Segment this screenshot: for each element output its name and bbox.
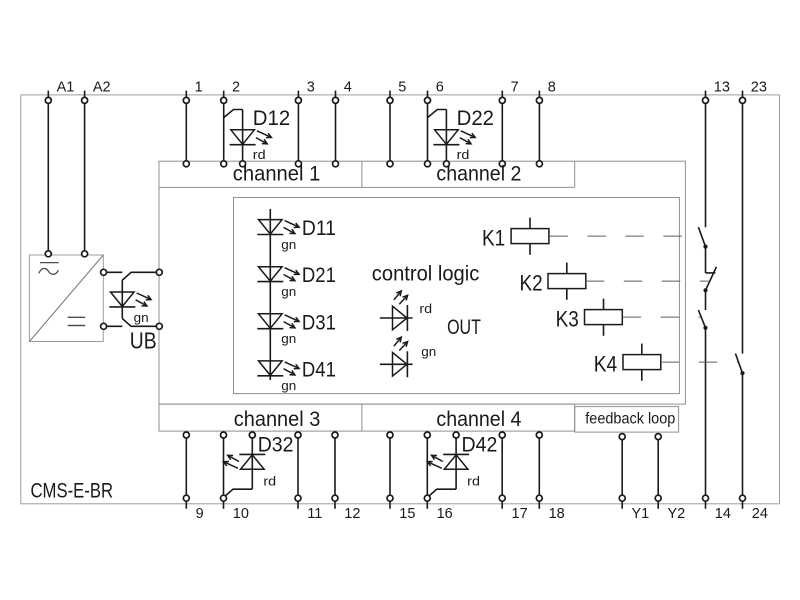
svg-text:11: 11	[307, 506, 322, 522]
svg-text:feedback loop: feedback loop	[585, 411, 675, 428]
svg-text:D11: D11	[302, 217, 336, 240]
svg-text:control logic: control logic	[372, 262, 480, 285]
svg-text:7: 7	[511, 80, 519, 96]
svg-text:2: 2	[232, 80, 240, 96]
svg-text:channel 3: channel 3	[234, 408, 320, 431]
svg-text:rd: rd	[457, 147, 470, 162]
svg-text:channel 4: channel 4	[436, 408, 521, 431]
svg-text:rd: rd	[467, 473, 480, 488]
svg-text:K2: K2	[520, 270, 543, 295]
svg-text:8: 8	[548, 80, 556, 96]
svg-text:gn: gn	[281, 237, 296, 252]
svg-text:Y2: Y2	[668, 506, 686, 522]
svg-text:rd: rd	[263, 473, 276, 488]
svg-text:9: 9	[196, 506, 204, 522]
svg-text:D31: D31	[302, 311, 336, 334]
svg-text:gn: gn	[281, 284, 296, 299]
svg-text:18: 18	[549, 506, 565, 522]
svg-text:6: 6	[436, 80, 444, 96]
svg-text:17: 17	[512, 506, 528, 522]
svg-text:D22: D22	[457, 107, 494, 130]
svg-text:4: 4	[344, 80, 352, 96]
svg-text:Y1: Y1	[632, 506, 650, 522]
svg-text:D42: D42	[462, 433, 498, 456]
svg-text:12: 12	[344, 506, 360, 522]
svg-text:OUT: OUT	[447, 316, 481, 339]
svg-text:gn: gn	[281, 331, 296, 346]
svg-text:gn: gn	[134, 310, 149, 325]
svg-text:13: 13	[714, 80, 730, 96]
svg-text:1: 1	[195, 80, 203, 96]
svg-text:UB: UB	[130, 327, 157, 353]
svg-text:D32: D32	[258, 433, 294, 456]
svg-text:channel 1: channel 1	[233, 163, 320, 186]
svg-text:A1: A1	[57, 80, 75, 96]
svg-text:K4: K4	[594, 351, 617, 376]
svg-text:23: 23	[751, 80, 767, 96]
svg-text:rd: rd	[419, 301, 432, 316]
svg-text:D21: D21	[302, 264, 336, 287]
svg-text:10: 10	[233, 506, 249, 522]
svg-text:channel 2: channel 2	[436, 163, 521, 186]
svg-text:16: 16	[437, 506, 453, 522]
svg-text:CMS-E-BR: CMS-E-BR	[31, 480, 114, 503]
svg-text:D12: D12	[253, 107, 290, 130]
svg-text:D41: D41	[302, 358, 336, 381]
svg-text:K1: K1	[482, 225, 505, 250]
svg-text:K3: K3	[556, 306, 579, 331]
svg-text:A2: A2	[93, 80, 111, 96]
svg-text:gn: gn	[421, 344, 436, 359]
svg-text:14: 14	[715, 506, 731, 522]
svg-text:24: 24	[752, 506, 768, 522]
svg-text:3: 3	[307, 80, 315, 96]
svg-text:15: 15	[399, 506, 415, 522]
svg-text:5: 5	[398, 80, 406, 96]
svg-text:rd: rd	[253, 147, 266, 162]
svg-text:gn: gn	[281, 378, 296, 393]
